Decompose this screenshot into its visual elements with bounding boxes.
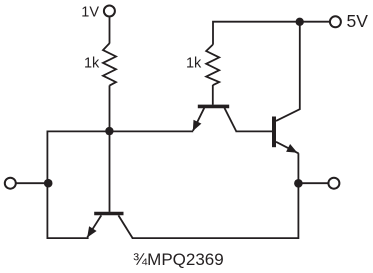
resistor R2 1k [206, 45, 219, 86]
terminal 5V [330, 16, 341, 27]
transistor Q1 base bar [94, 212, 123, 216]
wire left vertical (rail to bottom rail) [47, 131, 88, 239]
transistor Q1 emitter arrowhead [87, 226, 96, 237]
node B junction dot on 5V rail [296, 18, 304, 26]
wire input terminal to node C [17, 182, 49, 184]
transistor Q2 base bar [198, 105, 229, 109]
terminal input [5, 178, 16, 189]
transistor Q3 collector lead [276, 22, 300, 121]
wire R1 to node A and Q1 base [109, 85, 111, 211]
resistor R1 1k [103, 43, 116, 85]
terminal output [328, 178, 339, 189]
transistor Q3 base bar [272, 117, 276, 148]
wire R2 to Q2 base [212, 85, 214, 105]
transistor Q1 collector lead [118, 215, 132, 238]
wire 1V terminal to R1 [109, 18, 111, 44]
node D output junction dot [294, 179, 303, 188]
wire main rail (node A to Q2 emitter) [47, 130, 193, 132]
node A junction dot [105, 127, 113, 135]
transistor Q2 emitter arrowhead [193, 120, 202, 131]
wire 5V top rail [213, 22, 329, 45]
transistor Q3 emitter lead [276, 142, 299, 154]
wire Q2 collector to Q3 base [236, 130, 273, 132]
svg-text:1k: 1k [84, 55, 100, 71]
svg-text:1V: 1V [81, 4, 99, 20]
transistor Q1 emitter lead [87, 215, 101, 237]
wire node D to output terminal [298, 182, 328, 184]
svg-text:5V: 5V [347, 11, 369, 31]
wire bottom rail to output node [132, 153, 299, 238]
terminal 1V [104, 6, 115, 17]
transistor Q2 emitter lead [193, 108, 204, 131]
svg-text:¾MPQ2369: ¾MPQ2369 [133, 250, 224, 269]
svg-text:1k: 1k [186, 56, 202, 72]
transistor Q2 collector lead [224, 108, 236, 132]
node C input junction dot [44, 179, 53, 188]
transistor Q3 emitter arrowhead [286, 144, 297, 153]
